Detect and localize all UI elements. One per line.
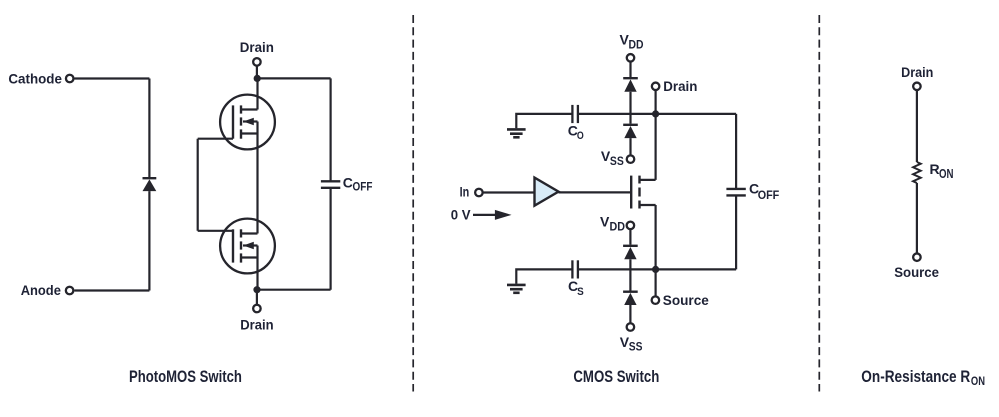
wire node to Source terminal xyxy=(654,269,656,296)
capacitor Co plate 1 xyxy=(571,105,573,123)
diode D1 triangle xyxy=(624,79,636,91)
diode LED (triangle) xyxy=(143,179,157,191)
transistor M1 drain stub xyxy=(241,108,258,110)
wire rail2 to Coff cmos xyxy=(656,268,737,270)
terminal circle In xyxy=(475,189,483,197)
capacitor Cs plate 2 xyxy=(577,260,579,278)
svg-text:SS: SS xyxy=(610,156,624,168)
transistor M1 source stub xyxy=(241,132,258,134)
svg-text:DD: DD xyxy=(610,221,626,233)
ground G1 corner wire xyxy=(516,114,572,128)
wire terminal to node top xyxy=(256,66,258,79)
wire gate M1 xyxy=(198,138,233,140)
transistor M3 source stub xyxy=(640,204,656,206)
svg-text:On-Resistance R: On-Resistance R xyxy=(861,368,970,386)
junction dot top xyxy=(254,75,261,82)
junction dot source node xyxy=(652,266,659,273)
diode D4 bar xyxy=(623,245,638,247)
transistor M1 channel segment 3 xyxy=(240,129,242,138)
svg-text:Cathode: Cathode xyxy=(8,70,62,86)
svg-text:Drain: Drain xyxy=(663,78,697,94)
svg-text:In: In xyxy=(460,183,470,199)
transistor M2 circle xyxy=(220,219,275,274)
arrow 0V line xyxy=(473,214,497,216)
wire Drain terminal to node xyxy=(654,90,656,114)
wire Drain to resistor xyxy=(916,90,918,162)
terminal circle Drain ron xyxy=(913,83,921,91)
wire In to buffer xyxy=(483,191,535,193)
transistor M3 gate bar xyxy=(630,176,632,209)
terminal circle Vdd bottom branch xyxy=(627,222,635,230)
diode D2 bar xyxy=(623,124,638,126)
transistor M1 body arrow xyxy=(243,118,254,125)
ground G2 bar 1 xyxy=(507,284,526,287)
terminal circle Source cmos xyxy=(652,296,660,304)
terminal circle Vdd top xyxy=(627,54,635,62)
capacitor Coff cmos plate 1 xyxy=(726,188,745,190)
capacitor Coff cmos plate 2 xyxy=(726,194,745,196)
svg-text:Drain: Drain xyxy=(240,39,274,55)
transistor M3 drain stub xyxy=(640,179,656,181)
wire Vdd to diode D1 xyxy=(629,61,631,77)
wire Coff upper vertical xyxy=(330,78,332,181)
wire M2 source to bottom node xyxy=(256,258,258,290)
svg-text:S: S xyxy=(577,286,584,298)
wire Vdd to diode D4 xyxy=(629,229,631,245)
svg-text:SS: SS xyxy=(629,342,643,354)
wire gate connector vertical xyxy=(197,139,199,231)
wire bottom rail from Coff xyxy=(258,289,331,291)
diode LED (cathode bar) xyxy=(143,177,157,179)
svg-text:V: V xyxy=(600,214,610,230)
junction dot drain node xyxy=(652,110,659,117)
transistor M2 body arrow xyxy=(243,242,254,249)
capacitor Coff plate 1 xyxy=(321,180,340,182)
transistor M2 source stub xyxy=(241,256,258,258)
resistor Ron zigzag xyxy=(913,162,921,183)
transistor M1 gate bar xyxy=(232,105,234,138)
transistor M2 channel segment 1 xyxy=(240,229,242,237)
svg-text:OFF: OFF xyxy=(353,182,373,194)
wire resistor to Source xyxy=(916,183,918,254)
ground G1 bar 1 xyxy=(507,128,526,131)
wire M3 drain to node xyxy=(654,114,656,180)
svg-text:0 V: 0 V xyxy=(451,206,471,222)
wire LED vertical upper xyxy=(148,79,150,178)
wire Coff cmos lower vertical xyxy=(735,195,737,269)
wire node to terminal bottom xyxy=(256,290,258,305)
wire M3 source to node xyxy=(654,205,656,269)
transistor M2 gate bar xyxy=(232,229,234,262)
transistor M1 channel segment 2 xyxy=(240,117,242,125)
terminal circle Vss bottom branch xyxy=(627,323,635,331)
terminal circle Anode xyxy=(66,287,74,295)
terminal circle Vss top branch xyxy=(627,155,635,163)
svg-text:ON: ON xyxy=(939,167,954,181)
svg-text:OFF: OFF xyxy=(758,190,780,202)
diode D5 triangle xyxy=(624,293,636,305)
wire cathode horizontal xyxy=(74,77,149,79)
transistor M1 body-source connector xyxy=(256,122,258,134)
wire anode horizontal xyxy=(74,289,149,291)
wire D5 to Vss bottom xyxy=(629,305,631,323)
junction dot bottom xyxy=(253,286,260,293)
diode D2 triangle xyxy=(624,126,636,138)
svg-text:Source: Source xyxy=(894,264,939,280)
wire D4 to rail2 xyxy=(629,259,631,269)
wire rail2 xyxy=(578,268,656,270)
wire rail1 xyxy=(578,113,656,115)
wire top rail to Coff xyxy=(258,77,331,79)
svg-text:Drain: Drain xyxy=(901,64,933,80)
capacitor Cs plate 1 xyxy=(571,260,573,278)
wire Coff lower vertical xyxy=(330,188,332,290)
transistor M3 channel dash 2 xyxy=(638,188,640,197)
wire rail1 to Coff cmos xyxy=(656,113,737,115)
wire buffer to gate xyxy=(559,191,632,193)
transistor M2 body stub xyxy=(243,244,258,246)
transistor M1 body stub xyxy=(243,120,258,122)
wire Coff cmos upper vertical xyxy=(735,114,737,189)
terminal circle Source ron xyxy=(913,253,921,261)
ground G2 bar 2 xyxy=(510,288,523,291)
svg-text:Drain: Drain xyxy=(240,316,273,332)
op-amp buffer U1 xyxy=(535,178,559,206)
transistor M2 body-source connector xyxy=(256,246,258,258)
transistor M3 channel dash 1 xyxy=(638,176,640,184)
capacitor Co plate 2 xyxy=(577,105,579,123)
svg-text:ON: ON xyxy=(971,376,985,388)
terminal circle Cathode xyxy=(66,75,74,83)
wire D1 to rail1 xyxy=(629,92,631,114)
terminal circle Drain top xyxy=(253,58,261,66)
svg-text:PhotoMOS Switch: PhotoMOS Switch xyxy=(129,368,242,386)
transistor M3 channel dash 3 xyxy=(638,201,640,209)
wire LED vertical lower xyxy=(148,191,150,290)
transistor M2 drain stub xyxy=(241,232,258,234)
svg-text:Anode: Anode xyxy=(21,282,61,298)
svg-text:O: O xyxy=(577,130,584,142)
wire D2 to Vss xyxy=(629,138,631,155)
ground G1 bar 3 xyxy=(513,136,519,139)
wire rail2 to diode D5 xyxy=(629,269,631,290)
diode D1 bar xyxy=(623,77,638,79)
transistor M1 channel segment 1 xyxy=(240,105,242,113)
ground G2 corner wire xyxy=(516,269,572,283)
wire drain M1 xyxy=(256,78,258,109)
diode D4 triangle xyxy=(624,247,636,259)
wire between M1 source and M2 drain xyxy=(256,134,258,234)
svg-text:CMOS Switch: CMOS Switch xyxy=(573,368,659,386)
transistor M2 channel segment 3 xyxy=(240,253,242,262)
arrow 0V head xyxy=(495,210,512,220)
separator dashed line 1 xyxy=(412,15,414,392)
capacitor Coff plate 2 xyxy=(321,187,340,189)
transistor M2 channel segment 2 xyxy=(240,241,242,249)
separator dashed line 2 xyxy=(818,15,820,392)
svg-text:DD: DD xyxy=(629,39,644,51)
ground G1 bar 2 xyxy=(510,132,523,135)
diode D5 bar xyxy=(623,291,638,293)
terminal circle Drain bottom xyxy=(253,305,261,313)
svg-text:C: C xyxy=(343,175,353,191)
terminal circle Drain cmos xyxy=(652,83,660,91)
svg-text:Source: Source xyxy=(663,292,709,308)
ground G2 bar 3 xyxy=(513,291,519,294)
transistor M1 circle xyxy=(220,95,275,150)
wire rail1 to diode D2 xyxy=(629,114,631,124)
wire gate M2 xyxy=(198,230,233,232)
